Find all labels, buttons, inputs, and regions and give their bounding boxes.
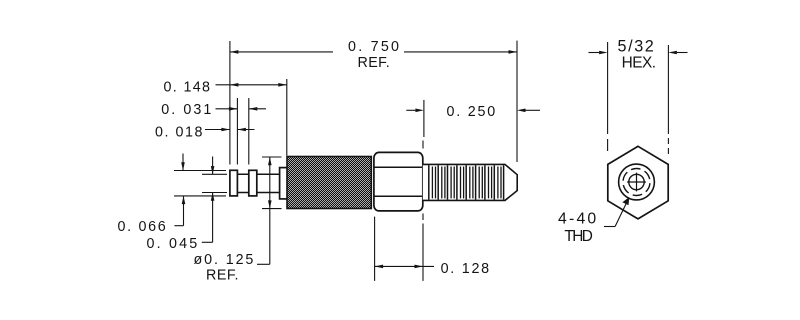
dim 0.750 REF line left segment	[230, 51, 333, 53]
extension line 0.066 top	[174, 170, 226, 172]
thread root lines	[432, 167, 501, 199]
dim 0.148 right arrowhead	[278, 83, 287, 87]
dim 0.148 line	[216, 84, 287, 86]
extension line hex right flat	[667, 45, 669, 154]
dim 0.018 right tail	[237, 129, 254, 131]
svg-text:0. 250: 0. 250	[447, 104, 498, 120]
extension line 0.045 bottom	[202, 192, 227, 194]
leader phi 0.125	[257, 263, 270, 265]
dim 0.031 left arrowhead (outside, pointing right)	[229, 107, 238, 111]
knurl (diamond pattern cylinder)	[287, 157, 371, 209]
dim 0.750 right arrowhead	[509, 50, 518, 54]
extension line 0.066 bottom	[174, 195, 226, 197]
svg-text:THD: THD	[564, 228, 592, 245]
dim phi 0.125 top tick	[262, 156, 282, 158]
svg-text:0. 750: 0. 750	[348, 39, 401, 55]
pin shaft	[237, 174, 279, 192]
dim 0.045 lower arrow + leader to text	[202, 193, 213, 243]
dim 0.128 right arrowhead	[415, 265, 424, 269]
extension line hex left flat	[607, 42, 609, 151]
dim 0.148 left arrowhead	[230, 83, 239, 87]
extension line 0.045 top	[202, 173, 227, 175]
dim 5/32 right arrow	[677, 52, 688, 54]
dashes above hex right edge	[422, 141, 424, 149]
dim 0.250 right arrow (outside pointing left)	[526, 109, 541, 111]
extension line 0.128 left (below hex)	[374, 217, 376, 281]
svg-text:ø0. 125: ø0. 125	[194, 252, 256, 268]
svg-text:0. 066: 0. 066	[118, 219, 168, 235]
dim 0.128 line	[375, 265, 434, 267]
svg-text:5/32: 5/32	[618, 38, 656, 56]
rib R2	[249, 170, 257, 196]
svg-text:0. 148: 0. 148	[164, 79, 212, 95]
extension line 0.128 right (below hex)	[422, 224, 424, 281]
center mark vertical	[636, 173, 638, 192]
svg-text:REF.: REF.	[206, 267, 239, 283]
collar	[280, 168, 288, 199]
leader 4-40 THD	[604, 201, 628, 227]
thread crest/root lines	[429, 165, 504, 199]
extension line 0.250 left (above)	[423, 100, 425, 137]
dim 0.018 right arrowhead (outside, pointing left)	[237, 128, 246, 132]
tap drill circle	[629, 174, 644, 189]
dim 0.250 left arrow (outside pointing right)	[406, 109, 415, 111]
svg-text:0. 031: 0. 031	[161, 102, 213, 118]
dim 5/32 left arrow	[589, 52, 600, 54]
svg-text:HEX.: HEX.	[622, 55, 656, 72]
dashed thread circle	[623, 169, 650, 196]
extension line knurl left (0.148 right end)	[286, 79, 288, 156]
svg-text:4-40: 4-40	[558, 211, 598, 228]
dim 0.045 upper arrow stub	[212, 157, 214, 175]
extension line rib1 right	[236, 98, 238, 165]
extension line thread tip (0.750 right end)	[516, 41, 518, 162]
rib R1	[230, 170, 238, 196]
dash below hex right edge	[422, 214, 424, 221]
hexagon end view	[608, 146, 668, 219]
dim 0.066 upper arrow stub	[182, 154, 184, 171]
thread outline	[423, 164, 517, 200]
dim 0.031 right tail	[249, 108, 266, 110]
dim 0.066 lower arrow + leader to text	[174, 196, 183, 226]
dim phi 0.125 bottom tick	[262, 208, 282, 210]
extension line rib2 left	[248, 98, 250, 165]
hex side view upper corner line	[374, 166, 423, 168]
outer circle (chamfer)	[619, 164, 655, 200]
svg-text:0. 128: 0. 128	[441, 261, 491, 277]
svg-text:0. 045: 0. 045	[147, 236, 200, 252]
dim phi 0.125 vertical line with arrows	[269, 157, 271, 264]
dim 0.750 REF line right segment	[404, 51, 517, 53]
center mark horizontal	[627, 181, 646, 183]
svg-text:REF.: REF.	[358, 55, 391, 71]
hex section side view silhouette	[374, 152, 423, 211]
dim 0.031 line left tail	[216, 108, 238, 110]
dim 0.018 line left tail	[205, 129, 230, 131]
dim 0.031 right arrowhead (outside, pointing left)	[249, 107, 257, 111]
dim 0.018 left arrowhead (outside, pointing right)	[221, 128, 230, 132]
hex side view lower corner line	[374, 195, 423, 197]
svg-text:0. 018: 0. 018	[155, 124, 204, 140]
extension line rib1 left (top, to 0.750 & 0.148 & 0.018)	[229, 41, 231, 165]
dim 0.750 left arrowhead	[230, 50, 239, 54]
dim 0.128 left arrowhead	[375, 265, 384, 269]
